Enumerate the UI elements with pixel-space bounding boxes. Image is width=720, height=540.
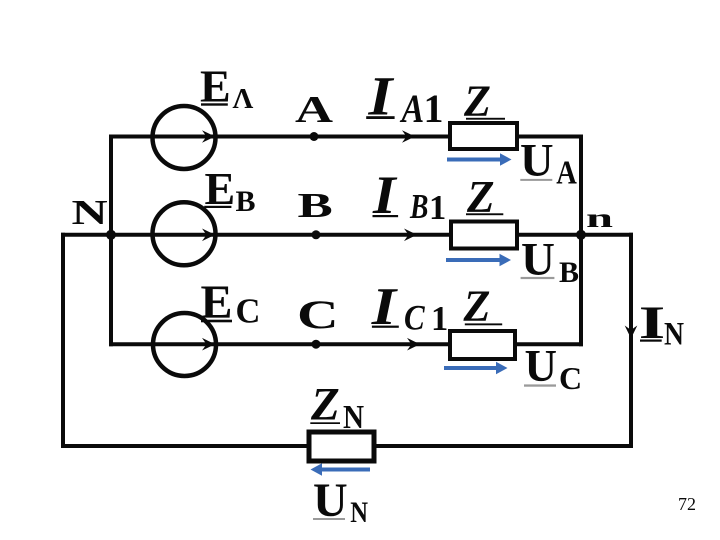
label Z phase A	[463, 77, 505, 126]
svg-text:C: C	[236, 293, 261, 331]
impedance Z box phase A	[450, 123, 517, 149]
svg-text:N: N	[343, 398, 364, 435]
label I_N	[639, 296, 684, 352]
current arrow I_B1 on phase B wire	[404, 229, 417, 242]
label Z phase C	[463, 281, 503, 330]
source E_A circle	[153, 106, 216, 169]
source E_B internal arrow	[202, 229, 215, 242]
svg-text:n: n	[586, 203, 613, 233]
voltage arrow U_N (blue, left)	[311, 463, 371, 475]
impedance Z box phase B	[451, 222, 517, 249]
svg-text:U: U	[525, 341, 558, 391]
wire: mid-right vertical (load star point bus)	[579, 135, 583, 347]
node N junction dot	[106, 230, 116, 240]
label E_C	[201, 276, 261, 331]
current arrow I_N on right vertical (down)	[625, 326, 638, 339]
svg-text:Z: Z	[463, 281, 491, 330]
label E_B	[204, 163, 255, 218]
node n junction dot	[576, 230, 586, 240]
svg-text:B: B	[236, 185, 256, 218]
wire: phase C horizontal	[109, 342, 583, 346]
current arrow I_A1 on phase A wire	[402, 130, 415, 143]
wire: bottom neutral horizontal	[61, 444, 633, 448]
wire: phase A horizontal	[109, 135, 583, 139]
source E_C circle	[153, 313, 216, 376]
label Z phase B	[466, 172, 503, 222]
impedance Z_N box neutral	[309, 432, 374, 461]
label node n	[586, 203, 613, 233]
voltage arrow U_C (blue, right)	[444, 362, 508, 374]
svg-text:C: C	[404, 298, 425, 338]
label E_A	[200, 61, 254, 115]
node dot on phase B at label B	[312, 230, 321, 239]
label U_C	[524, 341, 582, 396]
svg-text:Λ: Λ	[233, 83, 254, 115]
current arrow I_C1 on phase C wire	[407, 338, 420, 351]
label I_C1	[371, 276, 449, 338]
svg-text:C: C	[297, 293, 339, 337]
impedance Z box phase C	[450, 331, 515, 359]
label node N	[72, 194, 108, 232]
label node C	[297, 293, 339, 337]
source E_A internal arrow	[202, 130, 215, 143]
label node B	[298, 186, 333, 225]
svg-text:1: 1	[429, 189, 446, 227]
label U_A	[520, 136, 577, 192]
svg-text:A: A	[295, 88, 333, 130]
svg-text:B: B	[298, 186, 333, 225]
voltage arrow U_A (blue, right)	[447, 153, 512, 165]
wire: left outer vertical (neutral return left)	[61, 233, 65, 448]
label U_B	[521, 233, 579, 289]
svg-text:1: 1	[431, 300, 448, 338]
node dot on phase A at label A	[310, 132, 319, 141]
page number 72	[678, 494, 696, 514]
source E_C internal arrow	[202, 338, 215, 351]
label node A	[295, 88, 333, 130]
label Z_N neutral	[310, 379, 364, 436]
source E_B circle	[153, 202, 216, 265]
svg-text:B: B	[409, 187, 428, 226]
voltage arrow U_B (blue, right)	[446, 254, 511, 266]
node dot on phase C at label C	[312, 340, 321, 349]
svg-text:N: N	[72, 194, 108, 232]
label I_A1	[366, 66, 443, 132]
svg-text:1: 1	[424, 86, 444, 131]
svg-text:B: B	[559, 256, 579, 289]
label I_B1	[372, 166, 446, 227]
svg-text:U: U	[520, 136, 554, 187]
svg-text:C: C	[559, 360, 582, 396]
wire: left inner vertical (source neutral bus)	[109, 135, 113, 347]
svg-text:N: N	[350, 496, 368, 529]
svg-text:A: A	[400, 87, 425, 131]
svg-text:A: A	[556, 153, 577, 191]
wire: right vertical (neutral return right)	[629, 233, 633, 448]
svg-text:72: 72	[678, 494, 696, 514]
svg-text:N: N	[664, 315, 684, 352]
label U_N	[313, 474, 368, 529]
wire: phase B horizontal	[61, 233, 633, 237]
